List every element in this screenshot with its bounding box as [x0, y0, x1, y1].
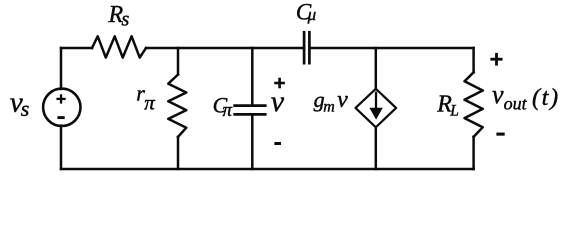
svg-text:π: π — [144, 90, 155, 114]
svg-text:(t): (t) — [532, 84, 560, 111]
svg-text:π: π — [223, 100, 233, 121]
svg-text:s: s — [122, 8, 130, 30]
svg-text:v: v — [492, 80, 504, 109]
svg-text:s: s — [21, 96, 30, 121]
svg-text:out: out — [504, 94, 528, 114]
svg-text:v: v — [337, 87, 348, 113]
svg-text:μ: μ — [307, 5, 317, 24]
svg-text:v: v — [271, 85, 285, 118]
svg-text:L: L — [449, 103, 459, 120]
svg-text:m: m — [323, 98, 335, 115]
